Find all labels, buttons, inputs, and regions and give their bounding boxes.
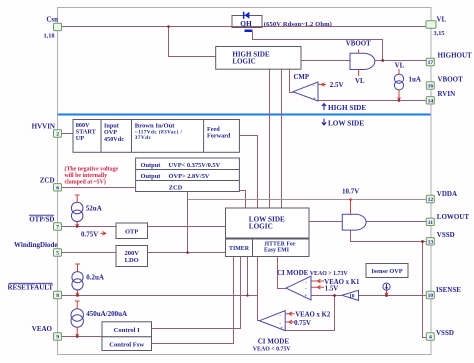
block Control Fsw	[102, 337, 152, 351]
net stub 0.2uA top T	[75, 264, 80, 272]
wire pin 2 HVVIN to 800V START UP block	[61, 133, 73, 135]
svg-text:52uA: 52uA	[86, 204, 102, 212]
label negative voltage note	[65, 166, 119, 186]
pin pad VL 3,15	[426, 21, 436, 28]
pin pad 8 RESETFAULT	[54, 291, 62, 298]
svg-text:LOWOUT: LOWOUT	[437, 213, 470, 221]
node junction HIGHOUT	[381, 59, 384, 62]
svg-text:Output: Output	[141, 173, 162, 180]
node junction RVIN 1uA	[398, 99, 401, 102]
comparator U3 CI mode high	[286, 276, 311, 300]
net stub 450uA bottom to VEAO wire	[76, 327, 78, 336]
pin pad 2 HVVIN	[54, 130, 62, 137]
label 1uA	[409, 75, 421, 83]
svg-text:CMP: CMP	[294, 74, 309, 81]
blue high/low side divider line	[58, 114, 431, 116]
net stub 0.75V to U4 input	[286, 320, 295, 324]
svg-text:TIMER: TIMER	[229, 246, 250, 252]
Isense OVP sensor arrow	[385, 284, 388, 290]
svg-text:5: 5	[56, 251, 59, 257]
svg-text:VL: VL	[355, 78, 365, 85]
wire 10.7V rail to pin 12 VDDA	[188, 199, 427, 201]
comparator input polarity marks	[279, 83, 316, 332]
svg-text:Csn: Csn	[46, 16, 58, 24]
svg-text:450uA/200uA: 450uA/200uA	[86, 310, 127, 318]
svg-text:2: 2	[56, 132, 59, 138]
label LOW SIDE LOGIC	[249, 215, 285, 230]
label LOW SIDE with down arrow	[322, 119, 364, 128]
wire JITTER to comparator U4 output	[258, 257, 260, 321]
current source 0.2uA circles	[72, 272, 83, 283]
svg-text:will be internally: will be internally	[65, 173, 108, 179]
node junction LDO-ZCD	[186, 251, 189, 254]
svg-text:0.2uA: 0.2uA	[86, 273, 104, 281]
wire Csn to QH to VL	[61, 26, 427, 28]
node junction ISENSE comp branch	[333, 294, 336, 297]
node junction VEAO 450uA	[76, 335, 79, 338]
IC outline border	[58, 8, 432, 355]
label CI MODE VEAO gt 1.73V	[277, 269, 348, 277]
svg-text:9: 9	[56, 335, 59, 341]
pin pad Csn 1,18	[54, 23, 62, 30]
pin pad 11 LOWOUT	[426, 218, 434, 225]
svg-text:Output: Output	[141, 162, 162, 169]
net stub 52uA top T	[75, 195, 80, 202]
block JITTER For Easy EMI	[253, 239, 310, 257]
wire gain buffer to pin 10 ISENSE	[359, 295, 427, 297]
node junction RESETFAULT 0.2uA	[76, 294, 79, 297]
wire driver U2 output to pin 17 HIGHOUT	[375, 60, 427, 62]
svg-text:1,18: 1,18	[43, 33, 54, 40]
svg-text:3,15: 3,15	[434, 30, 445, 37]
wire driver U5 output to pin 11 LOWOUT	[366, 221, 427, 223]
svg-text:Isense OVP: Isense OVP	[371, 268, 402, 275]
svg-text:UP: UP	[76, 135, 84, 142]
overline for RESETFAULT	[9, 282, 53, 284]
node junction VSSD branch	[421, 240, 424, 243]
label OTP	[125, 228, 138, 235]
svg-text:OVP> 2.8V/5V: OVP> 2.8V/5V	[169, 173, 210, 180]
label Control Fsw	[109, 341, 144, 348]
svg-text:+: +	[313, 96, 316, 102]
label 2.5V	[330, 81, 344, 89]
svg-text:-: -	[313, 83, 315, 89]
overline for OTP/SD	[29, 214, 54, 216]
pin pad 6 ZCD	[54, 184, 62, 191]
svg-text:0.75V: 0.75V	[294, 320, 311, 327]
svg-text:10.7V: 10.7V	[342, 188, 359, 196]
svg-text:RESETFAULT: RESETFAULT	[7, 284, 53, 292]
label 800V START UP	[76, 122, 97, 142]
svg-text:(650V Rdson~1.2 Ohm): (650V Rdson~1.2 Ohm)	[264, 21, 332, 28]
svg-text:LOGIC: LOGIC	[232, 57, 255, 65]
net stub VBOOT supply tick on U2	[358, 50, 360, 54]
svg-text:HIGH SIDE: HIGH SIDE	[328, 104, 366, 112]
node junction RESETFAULT-TIMER	[246, 294, 248, 296]
transistor QH body diode	[243, 12, 250, 19]
svg-text:450Vdc: 450Vdc	[104, 136, 124, 143]
label TIMER	[229, 246, 250, 252]
net stub 0.2uA bottom to RESETFAULT wire	[77, 290, 79, 296]
label 650V Rdson	[264, 21, 332, 28]
pin pad 14 RVIN	[426, 97, 434, 104]
comparator U4 CI mode low	[260, 311, 286, 331]
svg-text:VEAO > 1.73V: VEAO > 1.73V	[310, 271, 349, 277]
node junction 10.7V rail red dot	[349, 198, 352, 201]
label CI MODE VEAO lt 0.75V	[253, 338, 292, 353]
svg-text:8: 8	[56, 293, 59, 299]
wire pin 9 VEAO to Control I block	[61, 336, 102, 338]
wire pin 8 RESETFAULT net	[61, 295, 258, 297]
svg-text:17: 17	[428, 60, 434, 66]
label Input OVP 450Vdc	[104, 123, 124, 143]
block OTP	[116, 223, 148, 239]
current source 1uA circles	[394, 74, 403, 83]
svg-text:12: 12	[428, 197, 434, 203]
pin pad 4 VSSD	[426, 333, 434, 340]
wire pin 7 OTP/SD to OTP block to LOW SIDE LOGIC	[61, 226, 226, 228]
pin pad 5 WindingDiode	[54, 249, 62, 256]
wire driver U5 ground to pin 13 VSSD	[351, 230, 427, 241]
wire Feed Forward block to LOW SIDE LOGIC	[239, 136, 257, 209]
wire comparator U3 output up to JITTER	[278, 257, 287, 289]
label QH	[240, 19, 252, 28]
svg-text:+: +	[304, 293, 307, 299]
block LOW SIDE LOGIC	[226, 208, 310, 238]
label 450uA/200uA	[86, 310, 127, 318]
svg-text:(The negative voltage: (The negative voltage	[65, 166, 119, 173]
block Control I	[102, 322, 152, 337]
svg-text:-: -	[279, 313, 281, 319]
svg-text:VEAO x K2: VEAO x K2	[295, 312, 331, 319]
svg-text:+: +	[280, 326, 283, 332]
label HIGH SIDE with up arrow	[322, 104, 367, 112]
svg-text:LOW SIDE: LOW SIDE	[328, 119, 364, 127]
label Isense OVP	[371, 268, 402, 275]
svg-text:LOGIC: LOGIC	[249, 222, 273, 230]
svg-text:clamped at ~5V): clamped at ~5V)	[65, 179, 106, 186]
wire TIMER to RESETFAULT net	[247, 257, 249, 296]
block HIGH SIDE LOGIC	[216, 47, 301, 70]
svg-text:6: 6	[56, 185, 59, 191]
label VBOOT above U2	[346, 40, 371, 47]
net stub VL tick below U2	[358, 70, 360, 76]
svg-text:ZCD: ZCD	[40, 176, 55, 184]
svg-text:Control Fsw: Control Fsw	[109, 341, 144, 348]
label HIGH SIDE LOGIC	[232, 50, 269, 65]
net stub 10.7V rail into U5 driver	[350, 200, 352, 214]
svg-text:HIGHOUT: HIGHOUT	[438, 51, 473, 59]
block 200V LDO	[116, 246, 148, 267]
wire LOW SIDE LOGIC output to driver U5 input	[309, 221, 342, 223]
block TIMER	[226, 239, 253, 257]
wire pin 6 ZCD to ZCD block	[61, 187, 136, 189]
label ZCD row	[169, 184, 183, 191]
block 800V STARTUP / Input OVP / Brown In-Out / Feed Forward	[73, 120, 239, 153]
pin pad 10 ISENSE	[426, 291, 434, 298]
pin pad 9 VEAO	[54, 333, 62, 340]
label Brown In/Out values	[135, 122, 183, 141]
label 1.5V	[325, 285, 338, 292]
wire Control Fsw output up to TIMER	[152, 257, 234, 344]
wire Csn redraw across QH body	[232, 26, 262, 28]
net stub 1uA source to RVIN wire	[398, 90, 400, 100]
wire VSSD pin 13 to pin 4	[423, 242, 427, 338]
svg-text:VSSD: VSSD	[437, 231, 455, 239]
label VEAO x K2	[295, 312, 331, 319]
comparator CMP	[293, 82, 318, 101]
label Feed Forward	[207, 126, 231, 140]
wire HIGH SIDE LOGIC output to driver U2 input	[301, 60, 351, 62]
svg-text:VL: VL	[395, 63, 405, 70]
svg-text:-: -	[305, 280, 307, 286]
svg-text:OTP: OTP	[125, 228, 138, 235]
current source 450uA/200uA circles	[71, 309, 83, 321]
svg-text:UVP< 0.375V/0.5V: UVP< 0.375V/0.5V	[169, 162, 221, 169]
wire node Csn junction down to HIGH SIDE LOGIC input	[169, 27, 216, 57]
net stub 0.75V arrow at OTP	[101, 232, 107, 236]
pin pad 13 VSSD	[426, 238, 434, 245]
block Output UVP / Output OVP / ZCD	[136, 158, 240, 192]
label 0.75V at U4	[294, 320, 311, 327]
svg-text:OTP/SD: OTP/SD	[29, 215, 54, 223]
node junction OTP/SD 52uA	[76, 225, 79, 228]
node junction Csn-HSL	[167, 25, 170, 28]
net stub VEAO x K1 to U3 input	[312, 279, 325, 283]
svg-text:Control I: Control I	[114, 327, 141, 334]
transistor QH box	[232, 16, 262, 28]
svg-text:14: 14	[428, 98, 434, 104]
label VL below U2	[355, 78, 365, 85]
svg-text:WindingDiode: WindingDiode	[14, 241, 57, 249]
svg-text:16: 16	[428, 84, 434, 90]
net stub VEAO x K2 to U4 input	[286, 312, 295, 316]
label VEAO x K1	[324, 279, 360, 286]
svg-text:200V: 200V	[124, 250, 139, 257]
wire pin 5 WindingDiode to 200V LDO to TIMER	[61, 252, 226, 254]
svg-text:Brown In/Out: Brown In/Out	[135, 122, 175, 129]
svg-text:QH: QH	[240, 19, 252, 28]
label VL above 1uA	[395, 63, 405, 70]
op-amp U5 low-side driver gate	[342, 214, 366, 230]
svg-text:7: 7	[56, 225, 59, 231]
net stub Isense OVP sensor to ISENSE wire	[386, 290, 388, 295]
wire ZCD block bottom down to node Z	[187, 192, 189, 253]
label Control I	[114, 327, 141, 334]
svg-text:CI MODE: CI MODE	[277, 269, 309, 277]
svg-text:CI MODE: CI MODE	[258, 338, 290, 346]
wire HIGH SIDE LOGIC vertical A to LOW SIDE LOGIC	[269, 69, 271, 208]
svg-text:VEAO < 0.75V: VEAO < 0.75V	[253, 346, 292, 352]
pin pad 7 OTP/SD	[54, 223, 62, 230]
svg-text:VSSD: VSSD	[436, 329, 454, 337]
wire CMP output up to HIGH SIDE LOGIC	[290, 69, 294, 92]
svg-text:0.75V: 0.75V	[81, 230, 98, 238]
svg-text:RVIN: RVIN	[438, 90, 456, 98]
node junction ISENSE sensor	[385, 294, 388, 297]
svg-text:Easy EMI: Easy EMI	[264, 248, 290, 254]
label 0.2uA	[86, 273, 104, 281]
label Output OVP row	[141, 173, 210, 180]
current source 52uA circles	[71, 202, 83, 214]
svg-text:11: 11	[428, 220, 433, 226]
pin pad 12 VDDA	[426, 195, 434, 202]
label 200V LDO	[124, 250, 139, 264]
svg-text:VDDA: VDDA	[437, 190, 457, 198]
svg-text:2.5V: 2.5V	[330, 81, 344, 89]
op-amp U2 high-side driver gate	[350, 53, 375, 69]
svg-text:13: 13	[428, 239, 434, 245]
svg-text:VL: VL	[437, 16, 447, 24]
svg-text:HVVIN: HVVIN	[32, 123, 55, 131]
transistor QH source bar	[245, 30, 253, 33]
svg-text:1.5V: 1.5V	[325, 285, 338, 292]
label 0.75V at OTP	[81, 230, 98, 238]
label 52uA	[86, 204, 102, 212]
wire Control I output up to TIMER	[152, 257, 241, 329]
svg-text:10: 10	[349, 294, 355, 300]
net stub 52uA bottom to OTP/SD wire	[76, 222, 78, 227]
label Output UVP row	[141, 162, 221, 169]
amplifier gain 10 buffer	[342, 290, 359, 300]
svg-text:LDO: LDO	[125, 257, 139, 264]
svg-text:37Vdc: 37Vdc	[135, 135, 152, 141]
wire ISENSE net comparator U3 plus input to gain buffer	[311, 295, 342, 297]
label 10.7V	[342, 188, 359, 196]
svg-text:VEAO: VEAO	[32, 325, 53, 333]
svg-text:VBOOT: VBOOT	[438, 76, 464, 84]
pin pad 17 HIGHOUT	[426, 58, 434, 65]
svg-text:10: 10	[428, 293, 434, 299]
wire RVIN net to pin 14	[318, 100, 427, 102]
block Isense OVP	[366, 264, 408, 278]
wire Output/ZCD block to LOW SIDE LOGIC	[239, 191, 245, 209]
svg-text:1uA: 1uA	[409, 75, 421, 83]
svg-text:ZCD: ZCD	[169, 184, 183, 191]
svg-text:VBOOT: VBOOT	[346, 40, 371, 47]
net stub VL tick above 1uA source	[398, 69, 400, 74]
net stub 450uA top T	[75, 301, 80, 309]
pin pad 16 VBOOT	[426, 82, 434, 89]
label 10 in gain buffer	[349, 294, 355, 300]
label CMP	[294, 74, 309, 81]
wire HIGH SIDE LOGIC vertical B to LOW SIDE LOGIC	[281, 69, 283, 208]
wire ISENSE branch to comparator U4 plus input	[285, 296, 334, 331]
svg-text:-: -	[305, 286, 307, 292]
svg-text:Forward: Forward	[207, 133, 231, 140]
Isense OVP sensor circle	[383, 283, 390, 290]
net stub 1.5V to U3 input	[312, 286, 325, 290]
wire QH source to HIGHOUT net	[253, 32, 383, 61]
svg-text:ISENSE: ISENSE	[436, 286, 461, 294]
net stub 2.5V to CMP minus input	[319, 83, 327, 87]
svg-text:4: 4	[429, 335, 432, 341]
label JITTER For Easy EMI	[264, 242, 296, 254]
